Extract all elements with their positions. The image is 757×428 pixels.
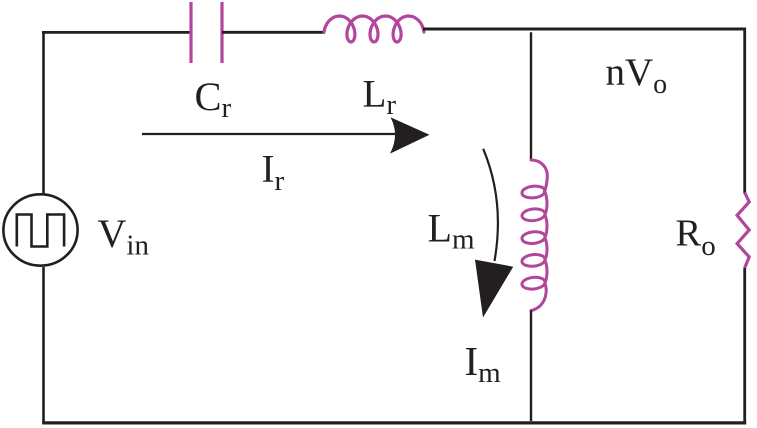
svg-text:Vin: Vin (98, 211, 150, 262)
current arrow Ir head (390, 117, 430, 153)
current arrow Im curved line (483, 149, 498, 261)
wire inductor Lr to top-right corner (423, 28, 746, 31)
svg-text:Im: Im (465, 338, 502, 389)
svg-text:Lm: Lm (428, 205, 475, 255)
wire left vertical top (42, 31, 45, 194)
wire capacitor to inductor Lr (222, 31, 325, 34)
resistor Ro zigzag (737, 193, 749, 268)
svg-text:Cr: Cr (195, 74, 232, 124)
wire bottom horizontal (42, 421, 746, 424)
svg-text:Lr: Lr (363, 72, 397, 121)
source Vin circle (3, 194, 77, 265)
source Vin square-wave symbol (17, 215, 64, 247)
wire top-left horizontal (source to capacitor) (42, 31, 192, 34)
wire middle vertical bottom (530, 311, 532, 422)
capacitor Cr plates (191, 2, 222, 63)
wire middle vertical top (530, 32, 532, 160)
inductor Lm coil (521, 160, 547, 311)
wire right vertical bottom (743, 268, 746, 424)
current arrow Ir line (142, 133, 400, 135)
current arrow Im head (475, 260, 513, 318)
svg-text:Ro: Ro (676, 212, 716, 261)
svg-text:Ir: Ir (262, 147, 285, 197)
svg-text:nVo: nVo (606, 51, 668, 100)
wire right vertical top (743, 28, 746, 193)
wire left vertical bottom (42, 267, 45, 424)
inductor Lr coil (324, 16, 424, 42)
